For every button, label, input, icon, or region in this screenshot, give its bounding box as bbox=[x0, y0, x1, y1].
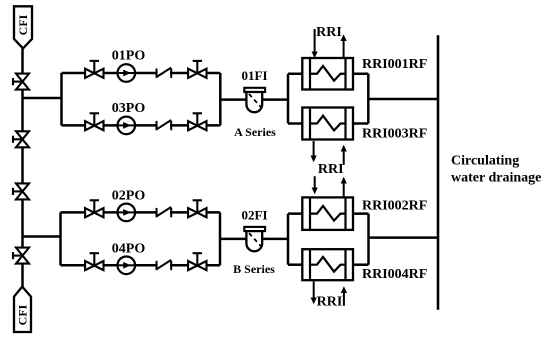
wire 02PO branch line bbox=[61, 211, 221, 214]
svg-text:02FI: 02FI bbox=[242, 207, 268, 222]
pump 04PO (circle with arrow) bbox=[118, 257, 136, 275]
heat exchanger RRI002RF bbox=[302, 197, 353, 230]
svg-text:02PO: 02PO bbox=[112, 189, 146, 204]
label 03PO bbox=[112, 101, 146, 116]
wire A-train loop left vertical bbox=[60, 73, 63, 125]
arrow RRI outflow below RRI004RF (down) bbox=[311, 282, 317, 305]
label 02FI bbox=[242, 207, 268, 222]
svg-text:01FI: 01FI bbox=[242, 68, 268, 83]
valve 03PO discharge (stem up) bbox=[188, 113, 206, 130]
arrow RRI outflow below RRI003RF (down) bbox=[311, 141, 317, 162]
wire junction to B-train pump loop bbox=[23, 235, 61, 238]
svg-text:RRI001RF: RRI001RF bbox=[362, 57, 427, 72]
label 04PO bbox=[112, 241, 146, 256]
arrow RRI return from RRI002RF (up) bbox=[341, 177, 347, 197]
flow indicator 02FI bbox=[244, 227, 265, 251]
label RRI middle bbox=[318, 162, 344, 177]
wire A-group discharge to drainage bbox=[368, 98, 438, 101]
arrow RRI inflow below RRI003RF (up) bbox=[341, 145, 347, 165]
label RRI001RF bbox=[362, 57, 427, 72]
svg-text:01PO: 01PO bbox=[112, 49, 146, 64]
wire circulating water drainage header bbox=[437, 35, 440, 310]
label 01PO bbox=[112, 49, 146, 64]
label B Series bbox=[233, 262, 275, 276]
label RRI top bbox=[316, 25, 342, 40]
heat exchanger RRI001RF bbox=[302, 58, 353, 90]
wire A-train outlet to 01FI bbox=[220, 98, 288, 101]
wire 04PO branch line bbox=[61, 264, 221, 267]
valve 01PO discharge (stem up) bbox=[188, 61, 206, 78]
wire B-train loop right vertical bbox=[219, 212, 222, 265]
wire RRI001RF inlet stub bbox=[288, 73, 302, 76]
check element on 04PO branch bbox=[157, 260, 172, 270]
valve 04PO discharge (stem up) bbox=[188, 253, 206, 270]
label RRI002RF bbox=[362, 198, 427, 213]
valve V3 on main line (handle left) bbox=[13, 183, 29, 199]
wire RRI004RF inlet stub bbox=[288, 263, 302, 266]
wire HX A-group inlet header bbox=[287, 74, 290, 124]
wire RRI002RF outlet stub bbox=[353, 212, 369, 215]
wire B-train loop left vertical bbox=[59, 212, 62, 265]
pump 02PO (circle with arrow) bbox=[118, 204, 136, 222]
wire RRI004RF outlet stub bbox=[353, 263, 369, 266]
svg-text:B Series: B Series bbox=[233, 262, 275, 276]
valve V1 on main line (handle left) bbox=[13, 74, 29, 90]
valve 01PO suction (stem up) bbox=[85, 61, 103, 78]
wire B-train outlet to 02FI bbox=[220, 238, 288, 241]
svg-text:CFI: CFI bbox=[16, 304, 30, 325]
node CFI top flag bbox=[14, 6, 32, 48]
wire HX B-group outlet header bbox=[367, 214, 370, 265]
node CFI bottom flag bbox=[14, 287, 31, 332]
label A Series bbox=[234, 125, 276, 139]
check element on 03PO branch bbox=[157, 120, 172, 130]
valve 04PO suction (stem up) bbox=[85, 253, 103, 270]
check element on 02PO branch bbox=[157, 207, 172, 217]
svg-text:RRI002RF: RRI002RF bbox=[362, 198, 427, 213]
svg-text:Circulating: Circulating bbox=[451, 153, 519, 168]
wire A-train loop right vertical bbox=[219, 73, 222, 125]
arrow RRI inflow below RRI004RF (up) bbox=[341, 286, 347, 306]
svg-text:RRI: RRI bbox=[316, 25, 342, 40]
pump 01PO (circle with arrow) bbox=[118, 64, 136, 82]
arrow RRI supply into RRI002RF (down) bbox=[312, 176, 318, 194]
wire B-group discharge to drainage bbox=[369, 236, 439, 239]
svg-text:water drainage: water drainage bbox=[451, 170, 541, 185]
wire HX A-group outlet header bbox=[367, 74, 370, 124]
svg-text:RRI004RF: RRI004RF bbox=[362, 267, 427, 282]
arrow RRI return from RRI001RF (up) bbox=[341, 34, 347, 58]
label 01FI bbox=[242, 68, 268, 83]
svg-text:RRI003RF: RRI003RF bbox=[362, 126, 427, 141]
heat exchanger RRI003RF bbox=[302, 108, 353, 140]
arrow RRI supply into RRI001RF (down) bbox=[312, 29, 318, 58]
wire HX B-group inlet header bbox=[287, 214, 290, 265]
valve 02PO suction (stem up) bbox=[85, 200, 103, 217]
wire RRI003RF outlet stub bbox=[353, 122, 368, 125]
wire RRI001RF outlet stub bbox=[353, 73, 368, 76]
valve V4 on main line (handle left) bbox=[13, 248, 29, 264]
wire junction to A-train pump loop bbox=[23, 97, 62, 100]
check element on 01PO branch bbox=[157, 68, 172, 78]
flow indicator 01FI bbox=[244, 88, 265, 112]
wire 01PO branch line bbox=[62, 72, 221, 75]
svg-text:03PO: 03PO bbox=[112, 101, 146, 116]
wire main supply vertical line bbox=[21, 48, 24, 286]
label RRI bottom bbox=[317, 295, 343, 310]
valve 03PO suction (stem up) bbox=[85, 113, 103, 130]
label RRI004RF bbox=[362, 267, 427, 282]
label RRI003RF bbox=[362, 126, 427, 141]
svg-text:CFI: CFI bbox=[16, 14, 30, 35]
wire RRI003RF inlet stub bbox=[288, 122, 302, 125]
heat exchanger RRI004RF bbox=[302, 249, 353, 280]
pump 03PO (circle with arrow) bbox=[118, 117, 136, 135]
svg-text:RRI: RRI bbox=[318, 162, 344, 177]
label Circulating water drainage bbox=[451, 153, 541, 185]
wire RRI002RF inlet stub bbox=[288, 212, 302, 215]
svg-text:04PO: 04PO bbox=[112, 241, 146, 256]
label 02PO bbox=[112, 189, 146, 204]
svg-text:A Series: A Series bbox=[234, 125, 276, 139]
valve V2 on main line (handle left) bbox=[13, 131, 29, 147]
valve 02PO discharge (stem up) bbox=[188, 200, 206, 217]
svg-text:RRI: RRI bbox=[317, 295, 343, 310]
wire 03PO branch line bbox=[62, 124, 221, 127]
